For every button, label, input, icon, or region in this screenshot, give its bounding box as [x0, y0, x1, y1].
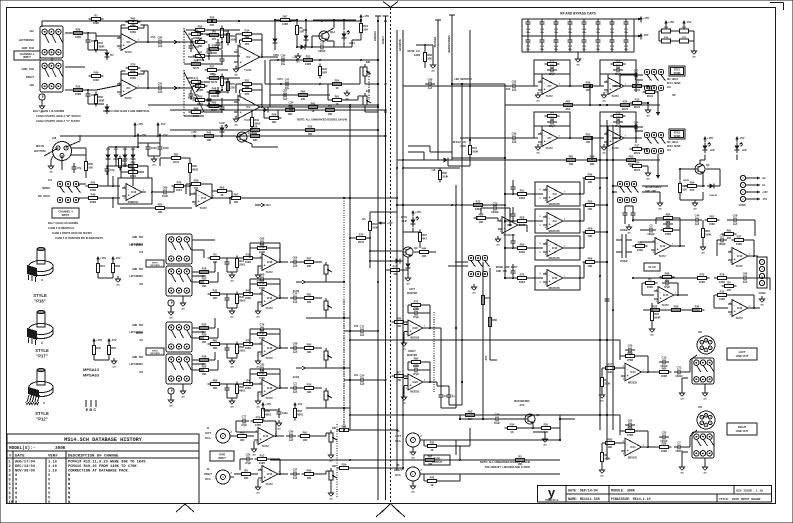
- resistor R208 clip feed: [202, 130, 217, 142]
- svg-text:33K2: 33K2: [254, 122, 261, 126]
- svg-text:AG: AG: [230, 365, 234, 368]
- net flag ch4 out: [255, 203, 271, 207]
- svg-text:N: N: [68, 488, 70, 492]
- svg-text:33K2: 33K2: [519, 223, 526, 227]
- resistor R76 sum out: [583, 199, 598, 211]
- svg-text:YORKVILLE: YORKVILLE: [545, 499, 559, 502]
- svg-text:AG: AG: [411, 490, 415, 493]
- svg-text:IC9: IC9: [553, 220, 558, 223]
- svg-text:LVL: LVL: [432, 169, 437, 172]
- svg-text:4K75: 4K75: [211, 80, 218, 84]
- svg-text:10K: 10K: [122, 163, 127, 167]
- svg-text:100K: 100K: [259, 286, 265, 290]
- connector J19 ch5 left jack: [129, 234, 192, 264]
- wire ch1 clip top: [252, 109, 278, 118]
- svg-text:+: +: [657, 248, 659, 252]
- pot trim strip2: [324, 298, 332, 313]
- label D5A: [303, 29, 308, 32]
- wire ch4 long bus: [229, 197, 350, 204]
- capacitor C112 lineout hf: [659, 431, 669, 444]
- wire y282 run: [306, 281, 326, 283]
- diode D1E ch4 protection: [131, 152, 136, 162]
- wire left1: [98, 261, 113, 279]
- label box CHANNEL 1 INPUT: [14, 51, 40, 60]
- svg-text:47pF: 47pF: [259, 245, 265, 249]
- label box RIGHT LINE OUT: [727, 423, 757, 435]
- svg-text:AG: AG: [329, 497, 333, 500]
- pot wiper arrow bass: [196, 85, 201, 92]
- power arrow +15V ch1 rail tap: [133, 122, 143, 129]
- capacitor CT1 tone: [188, 42, 198, 52]
- wire ch1 rail taps: [134, 129, 159, 138]
- svg-text:R7: R7: [397, 370, 401, 374]
- svg-text:100K: 100K: [130, 76, 136, 80]
- label C5: [151, 36, 156, 39]
- wire right lineout amp: [602, 431, 658, 448]
- svg-text:82R: 82R: [322, 71, 327, 75]
- wire ch4 bus to summing: [397, 204, 506, 206]
- resistor R205 clip lvl: [368, 219, 378, 234]
- resistor R211 tone fb2 A: [240, 28, 255, 40]
- svg-text:R63: R63: [372, 222, 377, 226]
- svg-text:-: -: [549, 216, 550, 220]
- wire q5: [679, 154, 737, 186]
- label ch4 diodes: [106, 149, 136, 151]
- svg-text:+: +: [123, 90, 125, 94]
- resistor R63 on bus: [561, 99, 576, 111]
- svg-text:MC33178: MC33178: [549, 287, 560, 290]
- junction dots verticals: [343, 20, 614, 461]
- wire ch4 pad: [70, 155, 86, 178]
- resistor R204 efx2 mix2: [630, 160, 645, 172]
- wire efx send taps: [636, 80, 643, 143]
- svg-text:N: N: [68, 492, 70, 496]
- svg-text:R65: R65: [705, 229, 710, 233]
- svg-text:C50: C50: [628, 344, 633, 348]
- svg-text:3: 3: [545, 284, 547, 286]
- power arrow EFX clip +15V: [411, 210, 421, 217]
- svg-text:LEFT: LEFT: [395, 435, 402, 438]
- svg-text:+: +: [264, 476, 266, 480]
- resistor R207 clip out: [388, 264, 403, 276]
- svg-text:SCH ISSUE: 1.10: SCH ISSUE: 1.10: [736, 490, 763, 493]
- ground vol: [344, 90, 350, 100]
- svg-text:10K: 10K: [307, 350, 312, 354]
- svg-text:10K: 10K: [272, 120, 277, 124]
- capacitor C142 tape l out: [286, 430, 296, 443]
- svg-text:R94: R94: [690, 180, 695, 184]
- wire U2B fb: [240, 90, 264, 108]
- svg-text:C57: C57: [634, 69, 639, 73]
- svg-text:R92: R92: [414, 356, 419, 360]
- svg-text:+: +: [410, 383, 412, 387]
- label HEADPHONES bus: [448, 35, 451, 53]
- svg-text:10K: 10K: [213, 296, 218, 300]
- svg-text:MIC IN: MIC IN: [36, 144, 44, 148]
- svg-text:DEC/13/94: DEC/13/94: [15, 464, 36, 469]
- connector J21 aux right jack: [129, 322, 192, 352]
- resistor R93: [643, 277, 658, 289]
- ground hp caps: [626, 224, 632, 234]
- label C31: [354, 375, 359, 377]
- svg-text:100K: 100K: [442, 175, 448, 179]
- label master rec: [514, 400, 530, 407]
- resistor R50A vol mix: [330, 94, 345, 106]
- svg-text:1: 1: [625, 136, 627, 138]
- svg-text:100n: 100n: [540, 32, 545, 34]
- svg-text:C26: C26: [281, 54, 286, 58]
- svg-text:R55: R55: [131, 160, 136, 164]
- svg-text:CHAN 3 PARTS HAVE A "V" SUFFIX: CHAN 3 PARTS HAVE A "V" SUFFIX: [36, 119, 80, 123]
- svg-text:CONN: CONN: [739, 205, 746, 207]
- svg-text:0: 0: [15, 479, 17, 483]
- wire efx fld: [469, 140, 471, 166]
- svg-text:IC2: IC2: [246, 56, 251, 59]
- svg-text:R43: R43: [122, 159, 127, 163]
- svg-text:J50: J50: [698, 331, 703, 334]
- svg-text:NE5532: NE5532: [628, 381, 638, 384]
- op-amp U36B strip amp: [208, 368, 289, 408]
- svg-text:300K: 300K: [55, 446, 66, 451]
- ground low v: [649, 303, 655, 336]
- chassis ground strip1: [168, 300, 174, 320]
- svg-text:100K: 100K: [259, 461, 265, 465]
- svg-text:1: 1: [675, 293, 677, 295]
- resistor R35 on y110: [323, 104, 338, 116]
- svg-text:5: 5: [539, 225, 541, 227]
- svg-text:100K: 100K: [224, 81, 230, 85]
- svg-text:-: -: [264, 257, 265, 261]
- pot mechanical drawing STYLE P16: [27, 247, 53, 282]
- led LD3: [735, 143, 743, 153]
- wire left lineout amp: [602, 356, 658, 373]
- svg-text:V: V: [48, 488, 51, 492]
- capacitor C141 fb tape l: [239, 415, 249, 428]
- power arrow +15V capgrid: [634, 16, 649, 23]
- wire xlr taps: [44, 135, 80, 170]
- power arrow tape -15: [293, 402, 302, 409]
- svg-text:R30: R30: [308, 124, 313, 128]
- svg-text:AG: AG: [646, 114, 650, 117]
- svg-text:IC15: IC15: [263, 435, 269, 438]
- svg-text:J21: J21: [48, 179, 53, 182]
- ground mute: [292, 53, 300, 63]
- svg-text:10K: 10K: [479, 220, 484, 224]
- resistor R172 aux: [481, 293, 490, 308]
- svg-text:-: -: [240, 51, 241, 55]
- ground left2: [111, 358, 117, 368]
- svg-text:220pF: 220pF: [491, 210, 499, 214]
- svg-text:AG: AG: [234, 73, 238, 76]
- led LD5 ch1 clip: [220, 125, 228, 135]
- resistor R72 summing input: [515, 188, 530, 200]
- svg-text:R42: R42: [98, 41, 103, 45]
- wire master R: [404, 362, 437, 394]
- svg-text:RCA: RCA: [205, 437, 211, 440]
- connector J41 headphone jack: [617, 181, 638, 202]
- diode D1C ch4 protection: [114, 152, 119, 162]
- svg-text:TL072: TL072: [735, 317, 743, 320]
- svg-text:R58: R58: [520, 215, 525, 219]
- op-amp U20B efx return: [728, 248, 752, 268]
- connector J2 tape in right RCA: [216, 470, 234, 484]
- wire headphone feeds: [612, 185, 668, 210]
- ground left lineout: [702, 390, 708, 400]
- svg-text:CLIP: CLIP: [402, 220, 408, 223]
- svg-text:47pF: 47pF: [627, 427, 633, 431]
- svg-text:R40: R40: [322, 67, 327, 71]
- svg-text:-: -: [260, 431, 261, 435]
- svg-text:+: +: [544, 140, 546, 144]
- svg-text:3: 3: [406, 334, 408, 336]
- svg-text:47K: 47K: [666, 220, 671, 224]
- svg-text:R36: R36: [695, 304, 700, 308]
- svg-text:RIGHT: RIGHT: [136, 333, 144, 335]
- pot trim strip4: [324, 388, 332, 403]
- resistor R181 master L in: [392, 316, 407, 328]
- resistor R112 lineout ser: [657, 441, 672, 453]
- wire tone fb2 B: [236, 84, 262, 93]
- svg-text:C45A: C45A: [273, 54, 279, 57]
- svg-text:R51: R51: [520, 188, 525, 192]
- svg-text:EFX2_SEND: EFX2_SEND: [667, 146, 681, 148]
- svg-text:1uF: 1uF: [733, 222, 738, 226]
- svg-text:MONO: MONO: [42, 187, 50, 190]
- svg-text:5: 5: [539, 252, 541, 254]
- svg-text:10K: 10K: [244, 476, 249, 480]
- label PHONES bus: [434, 36, 437, 47]
- svg-text:Q2A: Q2A: [248, 132, 253, 135]
- svg-text:TL072: TL072: [265, 357, 273, 360]
- svg-text:-15V: -15V: [643, 33, 649, 37]
- resistor R155 ch4 t: [169, 152, 184, 164]
- svg-text:C24: C24: [360, 374, 365, 378]
- wire ch1b shunt: [88, 90, 104, 105]
- svg-text:+15V: +15V: [191, 131, 197, 134]
- svg-text:SSM2017: SSM2017: [128, 201, 140, 204]
- svg-text:-15V: -15V: [160, 122, 166, 126]
- svg-text:R41: R41: [311, 101, 316, 105]
- wire dotted bus: [343, 198, 345, 430]
- svg-text:R46: R46: [202, 354, 207, 358]
- svg-text:R42: R42: [207, 130, 212, 134]
- svg-text:47K: 47K: [727, 288, 732, 292]
- connector J1 tape in left RCA: [216, 429, 234, 443]
- svg-text:+: +: [264, 264, 266, 268]
- svg-text:MC33178: MC33178: [549, 230, 560, 233]
- pot trim strip1: [324, 262, 332, 277]
- svg-text:-: -: [264, 469, 265, 473]
- svg-text:1.10: 1.10: [48, 465, 57, 469]
- svg-text:NO_HOLE: NO_HOLE: [667, 79, 679, 81]
- label RIGHT MASTER: [407, 350, 417, 357]
- svg-text:1uF: 1uF: [360, 382, 365, 386]
- svg-text:2K21: 2K21: [634, 168, 641, 172]
- svg-text:1.10: 1.10: [48, 461, 57, 465]
- wire bus y205 ch4 out: [350, 197, 397, 199]
- svg-text:33K2: 33K2: [519, 250, 526, 254]
- svg-text:100K: 100K: [259, 250, 265, 254]
- svg-text:4: 4: [9, 474, 12, 478]
- svg-text:C27: C27: [293, 468, 298, 472]
- svg-text:100K: 100K: [193, 114, 199, 118]
- wire mute row: [275, 41, 334, 50]
- diode D1D ch4 protection: [123, 152, 128, 162]
- resistor R191 strip1 in c: [197, 276, 212, 288]
- power arrow -15V left1: [111, 256, 120, 263]
- capacitor C93: [662, 277, 672, 290]
- op-amp U11A cluster: [534, 110, 576, 154]
- svg-text:0: 0: [15, 474, 17, 478]
- wire ch4 amp out: [151, 191, 160, 193]
- resistor R210 clip top: [267, 112, 282, 124]
- capacitor C5 ch1 coupling: [155, 36, 165, 49]
- power arrow +15V mute rail: [359, 14, 369, 21]
- capacitor C151 ch4 rail: [157, 143, 169, 153]
- diode network D20-D23: [659, 27, 691, 43]
- ground capgrid: [575, 52, 581, 66]
- svg-text:AG: AG: [602, 151, 606, 154]
- svg-text:R88: R88: [590, 154, 595, 158]
- wire vol dash: [368, 71, 370, 100]
- svg-text:6: 6: [539, 273, 541, 275]
- svg-text:0: 0: [15, 497, 17, 501]
- svg-text:1: 1: [559, 84, 561, 86]
- net flag RIGHT ch1: [168, 86, 181, 90]
- svg-text:68K1: 68K1: [265, 413, 272, 417]
- svg-text:-: -: [544, 81, 545, 85]
- svg-text:EFX1_SEND: EFX1_SEND: [667, 83, 681, 85]
- wire bus y130: [170, 129, 379, 131]
- svg-text:10K: 10K: [422, 254, 427, 258]
- resistor R154 ch4: [172, 180, 187, 192]
- svg-text:47pF: 47pF: [413, 315, 419, 319]
- svg-text:R67: R67: [566, 99, 571, 103]
- svg-text:R5: R5: [213, 252, 217, 256]
- svg-text:V: V: [48, 483, 51, 487]
- capacitor C31 strip coupling: [357, 374, 367, 387]
- svg-text:C75: C75: [568, 46, 573, 48]
- wire summing input R74: [505, 234, 535, 249]
- svg-text:MC33178: MC33178: [549, 257, 560, 260]
- svg-text:C47A: C47A: [277, 78, 283, 81]
- svg-text:+15V: +15V: [100, 256, 106, 260]
- resistor R176 ch4 fb2: [189, 178, 204, 190]
- svg-text:R10: R10: [635, 97, 640, 101]
- svg-text:100n: 100n: [596, 49, 601, 51]
- svg-text:3: 3: [730, 314, 732, 316]
- svg-text:R31: R31: [472, 146, 477, 150]
- svg-text:AG: AG: [252, 453, 256, 456]
- capacitor C157 strip fb: [257, 323, 267, 336]
- svg-text:R35: R35: [76, 84, 81, 88]
- resistor R96 mid v: [701, 226, 711, 241]
- svg-text:R98: R98: [665, 271, 670, 275]
- svg-text:SEND: SEND: [674, 135, 681, 138]
- svg-text:AG: AG: [49, 170, 53, 173]
- resistor R49A out: [330, 78, 345, 90]
- svg-text:R98: R98: [198, 24, 203, 28]
- resistor R153 ch4 fb: [126, 166, 141, 178]
- svg-text:R81: R81: [569, 154, 574, 158]
- resistor R175 ch4 y208: [153, 202, 168, 214]
- svg-text:10K: 10K: [569, 162, 574, 166]
- svg-text:F: F: [171, 301, 173, 305]
- wire vertical bus L/MONO: [375, 16, 381, 500]
- svg-text:N: N: [68, 497, 70, 501]
- wire stair b: [408, 152, 470, 166]
- svg-text:+15V: +15V: [643, 16, 649, 20]
- svg-text:DATE: DATE: [15, 455, 25, 459]
- svg-text:STYLE: STYLE: [33, 293, 47, 298]
- ground tape rail: [276, 420, 282, 430]
- svg-text:3K3: 3K3: [566, 107, 571, 111]
- label box TAPE OUTPUT: [424, 455, 450, 465]
- resistor RT11 tone: [226, 31, 236, 46]
- wire ch4 xlr extras: [71, 148, 86, 155]
- svg-text:INPUT: INPUT: [23, 55, 31, 59]
- capacitor C55 out: [631, 69, 641, 82]
- svg-text:+: +: [198, 200, 200, 204]
- svg-text:100K: 100K: [604, 382, 610, 386]
- svg-text:1uF: 1uF: [283, 97, 288, 101]
- resistor R8 feedback U1B: [126, 62, 141, 74]
- svg-text:R89: R89: [616, 58, 621, 62]
- wire clip network: [349, 212, 402, 268]
- svg-text:5: 5: [539, 198, 541, 200]
- svg-text:-: -: [627, 367, 628, 371]
- svg-text:3: 3: [9, 470, 12, 474]
- wire ch4 in: [79, 184, 86, 200]
- svg-text:AG: AG: [701, 251, 705, 254]
- svg-text:47p: 47p: [110, 168, 115, 172]
- svg-text:3: 3: [256, 442, 258, 444]
- label J5: [395, 430, 402, 443]
- svg-text:STYLE: STYLE: [35, 411, 49, 416]
- svg-text:100K: 100K: [665, 232, 671, 236]
- svg-text:100n: 100n: [568, 32, 573, 34]
- svg-text:R56: R56: [272, 112, 277, 116]
- svg-text:1uF: 1uF: [293, 350, 298, 354]
- svg-text:C44: C44: [695, 214, 700, 218]
- label EFX1 CLIP: [401, 216, 408, 223]
- connector J45 output header: [757, 257, 767, 295]
- resistor R65 on bus160: [564, 154, 579, 166]
- pot P-TAPE-L fader: [329, 427, 337, 445]
- connector J13 EFX2 send jack: [644, 132, 665, 153]
- svg-text:LEFT/MONO: LEFT/MONO: [129, 245, 143, 247]
- pot VOL-R ch1: [363, 90, 371, 108]
- wire y460 join: [459, 446, 461, 461]
- svg-text:100R: 100R: [661, 374, 667, 378]
- capacitor CT7 tone: [206, 47, 211, 57]
- label J19 extra: [129, 245, 143, 247]
- svg-text:R53: R53: [202, 364, 207, 368]
- svg-text:C22: C22: [662, 431, 667, 435]
- wire y84 monitor: [451, 83, 505, 86]
- resistor R86 q5 emitter: [685, 180, 700, 192]
- svg-text:C76: C76: [582, 46, 587, 48]
- svg-text:100n: 100n: [624, 32, 629, 34]
- resistor R179 y460: [513, 454, 528, 466]
- ground tape l: [251, 441, 257, 456]
- svg-text:15K: 15K: [202, 372, 207, 376]
- svg-text:C7: C7: [677, 441, 681, 445]
- top-right corner crop mark: [770, 3, 784, 10]
- svg-text:1K: 1K: [393, 272, 396, 276]
- svg-text:10uF: 10uF: [162, 194, 168, 198]
- resistor R182 master R fb: [409, 356, 424, 368]
